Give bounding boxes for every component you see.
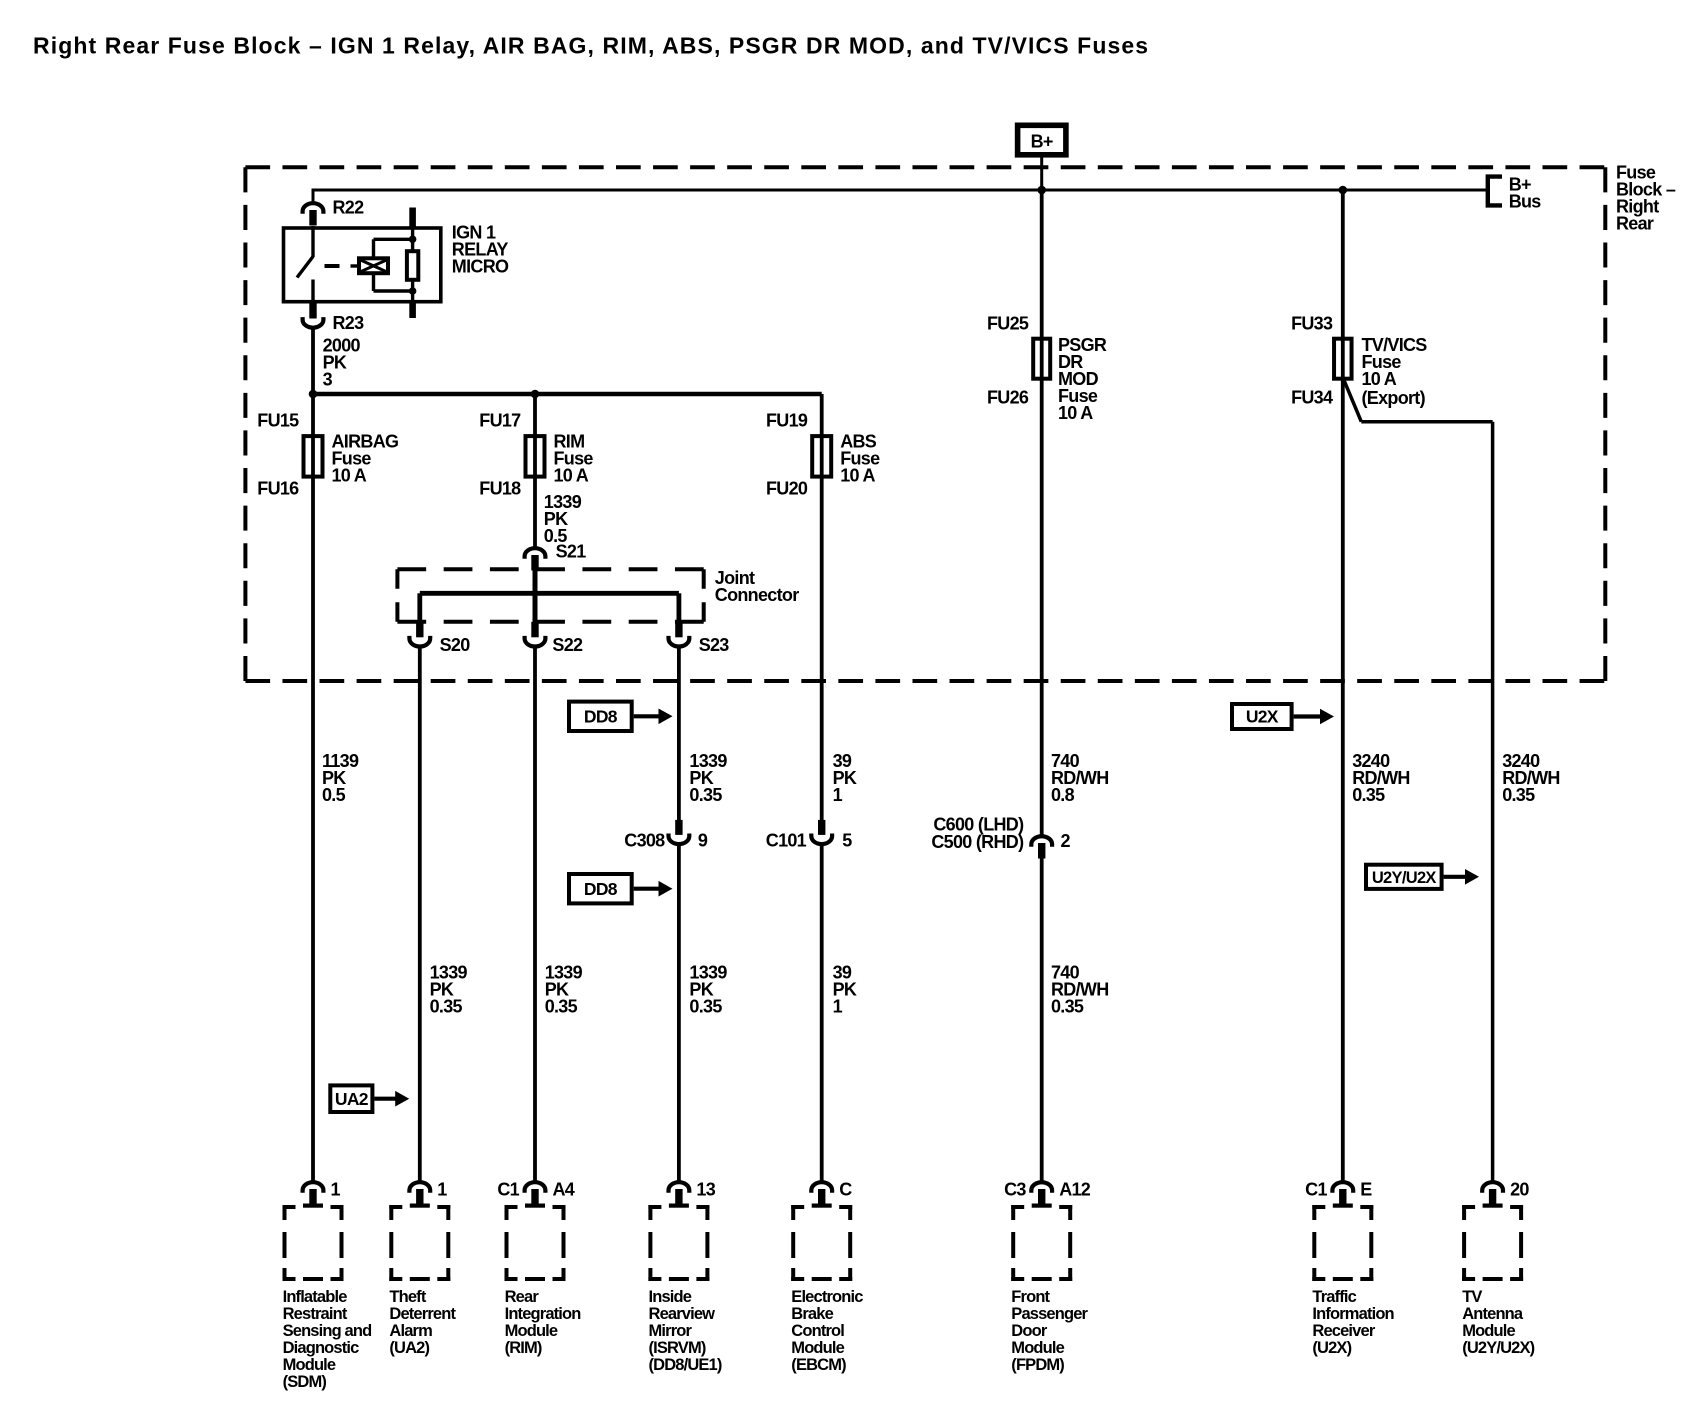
svg-text:Front: Front bbox=[1011, 1288, 1050, 1306]
svg-text:Traffic: Traffic bbox=[1312, 1288, 1356, 1306]
svg-text:Passenger: Passenger bbox=[1011, 1305, 1088, 1323]
svg-text:Diagnostic: Diagnostic bbox=[283, 1339, 360, 1357]
svg-text:9: 9 bbox=[698, 831, 708, 851]
svg-text:(EBCM): (EBCM) bbox=[791, 1356, 846, 1374]
svg-text:Restraint: Restraint bbox=[283, 1305, 348, 1323]
svg-text:Deterrent: Deterrent bbox=[389, 1305, 456, 1323]
svg-text:0.35: 0.35 bbox=[1051, 996, 1084, 1016]
svg-text:1: 1 bbox=[833, 996, 843, 1016]
svg-text:(SDM): (SDM) bbox=[283, 1373, 327, 1391]
svg-text:(Export): (Export) bbox=[1362, 388, 1426, 408]
svg-text:Module: Module bbox=[505, 1322, 558, 1340]
svg-text:10 A: 10 A bbox=[840, 465, 875, 485]
svg-text:Rearview: Rearview bbox=[649, 1305, 716, 1323]
svg-text:Right Rear Fuse Block – IGN 1: Right Rear Fuse Block – IGN 1 Relay, AIR… bbox=[33, 33, 1149, 59]
svg-text:U2X: U2X bbox=[1246, 707, 1279, 727]
svg-text:FU19: FU19 bbox=[766, 411, 808, 431]
svg-text:R22: R22 bbox=[333, 197, 365, 217]
svg-text:Mirror: Mirror bbox=[649, 1322, 693, 1340]
svg-text:3: 3 bbox=[323, 369, 333, 389]
svg-text:10 A: 10 A bbox=[554, 465, 589, 485]
svg-text:C1: C1 bbox=[497, 1179, 519, 1199]
svg-text:B+: B+ bbox=[1031, 132, 1053, 152]
svg-text:C1: C1 bbox=[1305, 1179, 1327, 1199]
svg-text:S21: S21 bbox=[556, 542, 587, 562]
svg-text:Receiver: Receiver bbox=[1312, 1322, 1375, 1340]
svg-text:Antenna: Antenna bbox=[1462, 1305, 1524, 1323]
svg-text:Door: Door bbox=[1011, 1322, 1048, 1340]
svg-text:0.35: 0.35 bbox=[1352, 785, 1385, 805]
svg-text:0.35: 0.35 bbox=[545, 996, 578, 1016]
svg-text:13: 13 bbox=[696, 1179, 715, 1199]
svg-text:C308: C308 bbox=[624, 831, 665, 851]
svg-text:0.35: 0.35 bbox=[1502, 785, 1535, 805]
svg-text:Sensing and: Sensing and bbox=[283, 1322, 372, 1340]
svg-text:Bus: Bus bbox=[1509, 192, 1542, 212]
svg-text:20: 20 bbox=[1510, 1179, 1529, 1199]
svg-text:Integration: Integration bbox=[505, 1305, 582, 1323]
svg-text:5: 5 bbox=[842, 831, 852, 851]
svg-text:A4: A4 bbox=[553, 1179, 575, 1199]
svg-text:S20: S20 bbox=[440, 635, 471, 655]
svg-text:FU33: FU33 bbox=[1291, 314, 1333, 334]
svg-text:Electronic: Electronic bbox=[791, 1288, 863, 1306]
svg-text:MICRO: MICRO bbox=[452, 256, 509, 276]
svg-text:Connector: Connector bbox=[715, 585, 799, 605]
svg-text:FU34: FU34 bbox=[1291, 388, 1333, 408]
svg-text:(U2Y/U2X): (U2Y/U2X) bbox=[1462, 1339, 1534, 1357]
svg-text:Control: Control bbox=[791, 1322, 844, 1340]
svg-text:Information: Information bbox=[1312, 1305, 1394, 1323]
svg-text:Module: Module bbox=[1462, 1322, 1515, 1340]
svg-text:(UA2): (UA2) bbox=[389, 1339, 429, 1357]
svg-text:FU18: FU18 bbox=[479, 479, 521, 499]
svg-text:0.35: 0.35 bbox=[430, 996, 463, 1016]
svg-text:(FPDM): (FPDM) bbox=[1011, 1356, 1064, 1374]
svg-text:TV: TV bbox=[1462, 1288, 1482, 1306]
svg-text:Inflatable: Inflatable bbox=[283, 1288, 348, 1306]
svg-text:C101: C101 bbox=[766, 831, 807, 851]
svg-text:(RIM): (RIM) bbox=[505, 1339, 542, 1357]
svg-text:1: 1 bbox=[833, 785, 843, 805]
svg-text:A12: A12 bbox=[1059, 1179, 1091, 1199]
svg-text:DD8: DD8 bbox=[584, 707, 618, 727]
svg-text:C: C bbox=[839, 1179, 852, 1199]
svg-text:FU26: FU26 bbox=[987, 388, 1029, 408]
svg-text:Brake: Brake bbox=[791, 1305, 833, 1323]
svg-text:0.8: 0.8 bbox=[1051, 785, 1075, 805]
svg-text:S22: S22 bbox=[552, 635, 583, 655]
svg-text:Module: Module bbox=[791, 1339, 844, 1357]
svg-text:Module: Module bbox=[283, 1356, 336, 1374]
svg-text:(DD8/UE1): (DD8/UE1) bbox=[649, 1356, 722, 1374]
svg-text:1: 1 bbox=[331, 1179, 341, 1199]
svg-text:E: E bbox=[1360, 1179, 1372, 1199]
svg-text:Rear: Rear bbox=[1616, 213, 1654, 233]
svg-text:Module: Module bbox=[1011, 1339, 1064, 1357]
svg-text:2: 2 bbox=[1061, 831, 1071, 851]
svg-text:Alarm: Alarm bbox=[389, 1322, 432, 1340]
svg-text:0.35: 0.35 bbox=[689, 785, 722, 805]
svg-text:10 A: 10 A bbox=[1362, 369, 1397, 389]
svg-text:FU15: FU15 bbox=[257, 411, 299, 431]
svg-text:Inside: Inside bbox=[649, 1288, 692, 1306]
svg-text:S23: S23 bbox=[699, 635, 730, 655]
svg-text:10 A: 10 A bbox=[1058, 403, 1093, 423]
svg-text:U2Y/U2X: U2Y/U2X bbox=[1372, 869, 1437, 887]
svg-text:C500 (RHD): C500 (RHD) bbox=[931, 832, 1024, 852]
svg-text:0.35: 0.35 bbox=[689, 996, 722, 1016]
svg-text:(ISRVM): (ISRVM) bbox=[649, 1339, 706, 1357]
svg-text:FU17: FU17 bbox=[479, 411, 521, 431]
svg-text:FU25: FU25 bbox=[987, 314, 1029, 334]
svg-text:10 A: 10 A bbox=[332, 465, 367, 485]
svg-text:0.5: 0.5 bbox=[322, 785, 346, 805]
svg-text:FU16: FU16 bbox=[257, 479, 299, 499]
svg-text:Theft: Theft bbox=[389, 1288, 426, 1306]
svg-text:DD8: DD8 bbox=[584, 879, 618, 899]
svg-text:UA2: UA2 bbox=[335, 1089, 369, 1109]
svg-text:FU20: FU20 bbox=[766, 479, 808, 499]
svg-text:R23: R23 bbox=[333, 313, 365, 333]
svg-text:Rear: Rear bbox=[505, 1288, 540, 1306]
svg-text:1: 1 bbox=[437, 1179, 447, 1199]
svg-text:(U2X): (U2X) bbox=[1312, 1339, 1351, 1357]
svg-text:C3: C3 bbox=[1004, 1179, 1026, 1199]
